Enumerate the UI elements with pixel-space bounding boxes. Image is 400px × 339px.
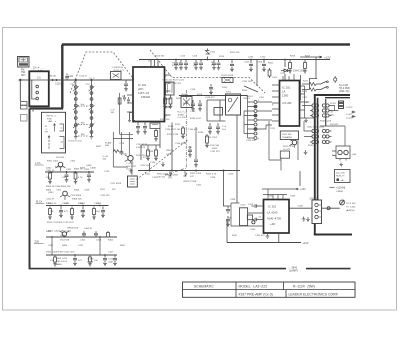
svg-text:VR306 50K: VR306 50K bbox=[67, 228, 79, 230]
dash-dot screen line vertical bbox=[165, 90, 186, 175]
svg-text:C304: C304 bbox=[70, 161, 76, 163]
transistor Q308 bbox=[252, 221, 255, 224]
junction dot d0 bbox=[51, 171, 53, 173]
svg-text:R327: R327 bbox=[232, 235, 238, 237]
svg-text:R201: R201 bbox=[268, 63, 274, 65]
heavy bus: +B vertical double line bbox=[314, 95, 316, 200]
svg-text:C152 223: C152 223 bbox=[210, 151, 220, 153]
switch row B resistor zigzag bbox=[302, 88, 320, 91]
svg-text:C324: C324 bbox=[210, 177, 216, 179]
svg-text:56B: 56B bbox=[193, 65, 197, 67]
svg-text:C121 R109: C121 R109 bbox=[110, 183, 122, 185]
node: antenna feed junction bbox=[19, 79, 21, 81]
svg-text:C310 R308: C310 R308 bbox=[70, 195, 82, 197]
legend tick small bbox=[61, 128, 64, 142]
svg-text:C315: C315 bbox=[96, 203, 102, 205]
schematic frame bottom edge left part bbox=[29, 268, 286, 270]
svg-text:R401: R401 bbox=[46, 231, 52, 233]
svg-text:C311: C311 bbox=[248, 204, 254, 206]
matrix feed wires left bbox=[302, 106, 310, 137]
svg-text:7BD: 7BD bbox=[81, 123, 86, 125]
svg-text:VR101: VR101 bbox=[166, 150, 173, 152]
wire IF det down to audio bus bbox=[171, 123, 173, 171]
resistor R204 on rail bbox=[288, 60, 292, 74]
svg-text:Q303: Q303 bbox=[48, 192, 54, 194]
wire branch x149.5 bbox=[149, 163, 151, 171]
capacitor C148 bbox=[194, 158, 198, 167]
svg-text:AT101: AT101 bbox=[50, 75, 57, 78]
svg-text:Q101: Q101 bbox=[122, 154, 128, 156]
svg-text:C333: C333 bbox=[290, 196, 296, 198]
svg-text:R323 4.7K: R323 4.7K bbox=[206, 174, 217, 176]
svg-text:R152: R152 bbox=[212, 148, 218, 150]
+12V supply wire under IC301 bbox=[227, 242, 301, 244]
FM antenna jack J1 bbox=[18, 57, 29, 68]
svg-text:4.5–6M: 4.5–6M bbox=[282, 101, 292, 105]
svg-text:TC–C: TC–C bbox=[89, 78, 95, 80]
crystal X101 below IC101 bbox=[150, 123, 160, 129]
svg-text:R402: R402 bbox=[108, 240, 114, 242]
svg-text:R224: R224 bbox=[302, 91, 308, 93]
svg-text:ANT: ANT bbox=[21, 74, 26, 77]
resistor R303 bbox=[74, 171, 78, 184]
cap C313 bbox=[59, 207, 63, 218]
transistor matrix row Q304 bbox=[310, 140, 332, 143]
resistor R139 below IC101 bbox=[146, 148, 150, 161]
svg-text:C134: C134 bbox=[148, 151, 154, 153]
tuning gang VC1 column bbox=[73, 80, 79, 136]
tuner terminal t2 bbox=[36, 91, 39, 94]
transistor matrix row Q212 bbox=[310, 109, 332, 112]
legend bracket 2 bbox=[60, 137, 65, 149]
svg-text:C+M: C+M bbox=[193, 63, 198, 65]
svg-text:NON–P×: NON–P× bbox=[336, 175, 346, 178]
svg-text:C407: C407 bbox=[108, 252, 114, 254]
svg-text:R135: R135 bbox=[168, 126, 174, 128]
title block col divider 2 bbox=[283, 282, 285, 290]
wire antenna to tuner bbox=[19, 79, 30, 81]
capacitor C145 bbox=[191, 100, 195, 111]
transistor Q303L bbox=[63, 191, 68, 196]
svg-text:C309: C309 bbox=[84, 190, 90, 192]
AM converter cluster: transistor Q101 bbox=[128, 156, 133, 161]
svg-text:IC 301: IC 301 bbox=[268, 205, 277, 209]
wire x196 branch bbox=[195, 127, 197, 158]
schematic frame left upper edge bbox=[61, 45, 63, 109]
svg-text:(A REW): (A REW) bbox=[346, 209, 355, 212]
resistor R137 mid ladder bbox=[181, 126, 185, 139]
ground CN303 bbox=[306, 217, 310, 222]
capacitor C104 at frame bbox=[65, 74, 69, 81]
heavy bus lower segment bbox=[314, 224, 316, 235]
heavy bus horizontal top bbox=[314, 94, 350, 96]
CN303 pin 3 bbox=[315, 215, 318, 218]
svg-text:C115 R109: C115 R109 bbox=[112, 67, 124, 69]
svg-text:TO E 300: TO E 300 bbox=[346, 203, 356, 205]
svg-text:10K: 10K bbox=[188, 147, 192, 149]
main RF wire y80 bbox=[49, 79, 133, 81]
resistor R402 bbox=[107, 231, 110, 237]
svg-text:R303 1K: R303 1K bbox=[74, 169, 83, 171]
junction dot d6 bbox=[99, 205, 101, 207]
ground cluster below IC101 bbox=[161, 162, 165, 167]
ground under IC301 bbox=[266, 233, 270, 238]
dashed AM shield diagonal bbox=[137, 140, 188, 180]
resistor R404 bbox=[53, 255, 57, 266]
tone rows link wires bbox=[52, 237, 100, 255]
capacitor C149 mid bbox=[188, 146, 192, 157]
svg-text:TC101 TC102: TC101 TC102 bbox=[68, 141, 82, 143]
wire down to IC301 input bbox=[224, 171, 232, 207]
diode D204 bbox=[281, 69, 291, 72]
svg-text:R304 1K C308 R306 10K: R304 1K C308 R306 10K bbox=[46, 186, 71, 188]
junction dot on RF wire a bbox=[52, 79, 54, 81]
svg-text:C404: C404 bbox=[96, 240, 102, 242]
svg-text:Q=C 750: Q=C 750 bbox=[336, 173, 346, 175]
svg-text:R321: R321 bbox=[145, 174, 151, 176]
junction dot audio b bbox=[171, 170, 173, 172]
svg-text:R+AM: R+AM bbox=[105, 142, 111, 145]
CN303 pin 2 bbox=[315, 209, 318, 212]
svg-text:D201: D201 bbox=[222, 87, 228, 89]
transistor Q401 bbox=[62, 232, 66, 236]
IC301 top pin stubs bbox=[263, 189, 287, 200]
detector transformer T201 bbox=[226, 94, 241, 115]
svg-text:1F AM: 1F AM bbox=[178, 113, 184, 116]
svg-text:R311 C313 R312 C314 470: R311 C313 R312 C314 470 bbox=[47, 222, 75, 224]
svg-text:+12V: +12V bbox=[303, 241, 309, 245]
svg-text:C116: C116 bbox=[192, 56, 198, 58]
svg-text:10K 471: 10K 471 bbox=[157, 177, 166, 179]
resistor R208 bbox=[268, 68, 271, 78]
svg-text:LA 4140: LA 4140 bbox=[267, 211, 278, 215]
schematic frame bottom edge right part bbox=[306, 268, 351, 270]
resistor R311 bbox=[48, 207, 52, 220]
wires left of IC301 bbox=[231, 203, 264, 226]
svg-text:R302 47K: R302 47K bbox=[55, 167, 65, 169]
meter drive wire loop bbox=[320, 126, 345, 146]
+12V feed arrow bbox=[300, 56, 322, 58]
svg-text:FM/AM: FM/AM bbox=[141, 95, 151, 99]
svg-text:R111: R111 bbox=[100, 189, 106, 191]
svg-text:R233: R233 bbox=[308, 145, 314, 147]
svg-text:CF101 471: CF101 471 bbox=[113, 70, 125, 72]
svg-text:R207: R207 bbox=[305, 56, 311, 58]
pot VR302 symbol bbox=[184, 171, 188, 177]
AM IF can legs bbox=[130, 113, 134, 121]
svg-text:R308 10K: R308 10K bbox=[72, 199, 82, 201]
svg-text:C411: C411 bbox=[48, 245, 54, 247]
svg-text:C136 R127 104: C136 R127 104 bbox=[165, 129, 181, 131]
schematic frame left lower edge bbox=[29, 109, 31, 269]
transistor Q302L bbox=[58, 162, 63, 167]
schematic frame top edge bbox=[62, 43, 350, 46]
AM osc coil box L103 bbox=[128, 176, 138, 187]
rail junction dot a bbox=[250, 59, 252, 61]
svg-text:CF201 455K: CF201 455K bbox=[221, 75, 234, 77]
wire rail to IC201 bbox=[257, 60, 285, 87]
svg-text:C301 10: C301 10 bbox=[46, 170, 55, 172]
Q401 leads bbox=[59, 231, 69, 237]
resistor R313 bbox=[92, 207, 96, 220]
supply rail wire y59.5 bbox=[139, 59, 330, 61]
svg-text:C301: C301 bbox=[196, 185, 202, 187]
svg-text:L202 560: L202 560 bbox=[210, 145, 220, 147]
svg-text:R407: R407 bbox=[120, 245, 126, 247]
svg-text:R401 C401 Q401 C403: R401 C401 Q401 C403 bbox=[48, 231, 72, 233]
resistor R132 bbox=[169, 95, 173, 109]
svg-text:→+12: →+12 bbox=[255, 217, 262, 219]
trim cap glyph a bbox=[352, 111, 356, 113]
svg-text:CN=C 205: CN=C 205 bbox=[293, 70, 305, 73]
transistor Q305 bbox=[338, 150, 342, 154]
switch row A resistor zigzag bbox=[302, 82, 320, 85]
svg-text:+FM·S1–1·→: +FM·S1–1·→ bbox=[46, 116, 59, 118]
IC101 pin tick marks bbox=[165, 75, 167, 117]
AF driver pair box bbox=[336, 146, 350, 159]
junction dot d10 bbox=[104, 254, 106, 256]
capacitor C111 bbox=[124, 80, 128, 91]
junction dot on RF wire d bbox=[90, 79, 92, 81]
svg-text:C211: C211 bbox=[270, 128, 276, 130]
junction dot on RF wire b bbox=[56, 79, 58, 81]
svg-text:IC202: IC202 bbox=[330, 103, 337, 105]
svg-text:C414: C414 bbox=[108, 259, 114, 261]
svg-text:C=103: C=103 bbox=[346, 118, 353, 120]
svg-text:C144 473: C144 473 bbox=[188, 129, 198, 131]
AGC row wire bbox=[45, 171, 94, 173]
resistor R131 bbox=[163, 95, 167, 109]
band switch legend box S1-1 bbox=[42, 112, 66, 153]
svg-text:Q302 Q303 Q304: Q302 Q303 Q304 bbox=[307, 127, 325, 129]
headphone jack J301 bbox=[340, 200, 345, 205]
svg-text:BASS: BASS bbox=[56, 263, 62, 266]
svg-text:R125 104: R125 104 bbox=[160, 119, 170, 121]
capacitor cluster A below rail bbox=[174, 60, 188, 70]
svg-text:C128 473: C128 473 bbox=[205, 97, 215, 99]
svg-text:R129 C138: R129 C138 bbox=[167, 134, 179, 136]
+12V(M) label bbox=[330, 186, 335, 188]
svg-text:C328: C328 bbox=[230, 199, 236, 201]
ground below Q201 bbox=[304, 150, 308, 155]
svg-text:FM: FM bbox=[21, 70, 24, 72]
IC101 left pin stubs bbox=[127, 80, 133, 112]
jack arrow bbox=[340, 200, 344, 205]
link wire to IC201 bbox=[257, 102, 272, 129]
AM antenna terminal block bbox=[21, 102, 28, 106]
svg-text:C1-1: C1-1 bbox=[70, 84, 76, 86]
IF amp IC101 bbox=[133, 67, 165, 122]
transistor matrix row Q211 bbox=[310, 104, 332, 107]
svg-text:R+12 C+3: R+12 C+3 bbox=[178, 112, 188, 114]
capacitor C152 below loop bbox=[216, 123, 220, 134]
switch row B lever S1-2b bbox=[320, 87, 327, 90]
discriminator T106 bbox=[166, 82, 175, 95]
AM converter loop wires bbox=[113, 132, 133, 167]
svg-text:C310: C310 bbox=[240, 205, 246, 207]
legend switch arrow 1 bbox=[54, 124, 56, 132]
wire IF out to right bbox=[179, 95, 248, 97]
svg-text:R136 C147: R136 C147 bbox=[190, 118, 202, 120]
wire antenna ground drop bbox=[19, 80, 21, 101]
+12V label left of CN303 bbox=[295, 188, 299, 190]
svg-text:Z00: Z00 bbox=[35, 240, 40, 244]
cap C315 bbox=[101, 207, 105, 218]
svg-text:C306: C306 bbox=[298, 206, 304, 208]
resistor R205 on rail bbox=[303, 60, 307, 74]
schematic frame step edge bbox=[30, 107, 64, 109]
transistor matrix row Q302 bbox=[310, 129, 332, 132]
resistor pack box R215 bbox=[280, 151, 289, 158]
svg-text:C=222: C=222 bbox=[346, 107, 353, 109]
svg-text:4.7K: 4.7K bbox=[78, 177, 83, 179]
ganged link dashes between VC sections bbox=[78, 106, 89, 136]
tone row1 wire bbox=[46, 236, 117, 238]
junction dot d4 bbox=[60, 205, 62, 207]
IC201 right riser wire bbox=[305, 86, 309, 118]
svg-text:10KB: 10KB bbox=[166, 154, 172, 156]
ceramic filter CF101 bbox=[111, 72, 122, 80]
svg-text:C114: C114 bbox=[180, 56, 186, 58]
title block row divider bbox=[183, 289, 356, 291]
output connector CN303 bbox=[312, 200, 322, 224]
wire Q101 to osc coil bbox=[131, 161, 133, 175]
tuner terminal t1 bbox=[36, 85, 39, 88]
wires below IC201 to audio bbox=[269, 121, 298, 171]
rail junction dot b bbox=[263, 59, 265, 61]
svg-text:+12V: +12V bbox=[300, 188, 306, 191]
cap C410 bbox=[113, 255, 117, 266]
switch row B contact bbox=[327, 86, 329, 88]
svg-text:C303: C303 bbox=[66, 169, 72, 171]
ground left of matrix bbox=[304, 118, 308, 123]
resistor R138 ladder bbox=[205, 134, 209, 148]
wire +12V feed to IC301 bbox=[262, 171, 300, 189]
trimmer symbol above switch bbox=[334, 78, 337, 81]
svg-text:75Ω: 75Ω bbox=[21, 72, 26, 74]
cap C311 bbox=[252, 204, 259, 208]
svg-text:R–1124 (9W): R–1124 (9W) bbox=[293, 285, 315, 289]
svg-text:C123 20P: C123 20P bbox=[100, 195, 110, 197]
svg-text:R320 C321: R320 C321 bbox=[157, 174, 169, 176]
legend switch arrow 2 bbox=[48, 136, 50, 149]
CN303 pin 1 bbox=[315, 203, 318, 206]
Q201 leads bbox=[290, 140, 295, 148]
junction dot d5 bbox=[82, 205, 84, 207]
junction dot d2 bbox=[75, 171, 77, 173]
junction dot audio wire bbox=[223, 170, 225, 172]
svg-text:R211 C215: R211 C215 bbox=[283, 146, 295, 148]
svg-text:R203: R203 bbox=[242, 90, 248, 92]
resistor R302 bbox=[48, 171, 52, 184]
svg-text:C151 C152: C151 C152 bbox=[206, 137, 218, 139]
svg-text:330 102: 330 102 bbox=[172, 65, 180, 67]
mute loop wire bbox=[207, 100, 226, 121]
svg-text:R114 330: R114 330 bbox=[155, 56, 165, 58]
junction dot d9 bbox=[74, 254, 76, 256]
svg-text:L103: L103 bbox=[126, 169, 132, 171]
svg-text:C307: C307 bbox=[56, 190, 62, 192]
IC201 right pin stubs bbox=[300, 86, 305, 118]
cap C408 bbox=[73, 255, 77, 266]
svg-text:L203: L203 bbox=[272, 77, 278, 79]
svg-text:C246: C246 bbox=[248, 57, 254, 59]
capacitor C121 with ground bbox=[230, 60, 234, 72]
title block outer bbox=[183, 282, 356, 297]
svg-text:2-1: 2-1 bbox=[37, 76, 41, 80]
pot VR301 symbol bbox=[169, 171, 173, 177]
coupling cap pack C310 bbox=[240, 208, 248, 226]
interstage connector CN201 pin column bbox=[254, 101, 257, 140]
capacitor cluster B below rail bbox=[194, 60, 203, 70]
dashed IF shield boundary bbox=[150, 50, 265, 93]
gang ground VC2 bbox=[90, 134, 94, 139]
svg-text:VOL: VOL bbox=[168, 178, 173, 180]
svg-text:C207: C207 bbox=[259, 97, 265, 99]
svg-text:R139: R139 bbox=[198, 132, 204, 134]
svg-text:SCHEMATIC: SCHEMATIC bbox=[194, 285, 214, 289]
svg-text:R403 C405 R405 C406 C407: R403 C405 R405 C406 C407 bbox=[46, 252, 75, 254]
svg-text:R221: R221 bbox=[303, 81, 309, 83]
wire matrix to DIP bbox=[329, 106, 339, 111]
rail junction dot c bbox=[284, 59, 286, 61]
cap C404 bbox=[94, 231, 98, 237]
DIP block IC202 bbox=[339, 101, 344, 109]
svg-text:L.Ch: L.Ch bbox=[35, 161, 41, 165]
ground AM cluster bbox=[129, 169, 133, 173]
tuner front-end box A1 bbox=[29, 71, 49, 106]
L103 inner ticks bbox=[130, 179, 135, 184]
svg-text:(LAMP): (LAMP) bbox=[289, 269, 298, 273]
svg-text:C135: C135 bbox=[150, 162, 156, 164]
junction dot d7 bbox=[51, 236, 53, 238]
junction dot on RF wire c bbox=[75, 79, 77, 81]
resistor R121 below IC101 bbox=[154, 129, 158, 142]
capacitor C130 below IC101 bbox=[136, 122, 140, 135]
capacitor C127 bbox=[209, 84, 213, 95]
svg-text:S1-2 AM: S1-2 AM bbox=[339, 84, 348, 87]
svg-text:2SC945: 2SC945 bbox=[56, 157, 65, 159]
rail junction dot d bbox=[207, 59, 209, 61]
svg-text:R137: R137 bbox=[175, 124, 181, 126]
capacitor C131 below IC101 bbox=[143, 122, 147, 135]
svg-text:2.2K: 2.2K bbox=[80, 211, 85, 213]
+12V text bbox=[296, 242, 299, 244]
svg-text:R304: R304 bbox=[46, 190, 52, 192]
svg-text:473 2.2K 102: 473 2.2K 102 bbox=[168, 83, 182, 85]
zener diode D102 bbox=[206, 49, 210, 60]
svg-text:+4D: +4D bbox=[270, 222, 275, 226]
svg-text:(4SR–1Q): (4SR–1Q) bbox=[339, 91, 350, 93]
capacitor C309 left of IC301 bbox=[226, 216, 230, 227]
svg-text:C146 R138: C146 R138 bbox=[175, 143, 187, 145]
CN201 pin feed wires bbox=[244, 96, 254, 139]
ground right of IC301 bbox=[302, 217, 306, 222]
junction dot d3 bbox=[88, 171, 90, 173]
svg-text:1000P: 1000P bbox=[87, 262, 94, 264]
resistor R140 below IC101 bbox=[154, 148, 158, 161]
switch row A lever S1-2a bbox=[320, 81, 327, 84]
transistor matrix row Q213 bbox=[310, 114, 332, 117]
driver pair leads bbox=[332, 151, 346, 161]
svg-text:R206: R206 bbox=[290, 56, 296, 58]
Q302L leads bbox=[56, 166, 66, 171]
transistor Q201 bbox=[292, 140, 297, 145]
svg-text:C1-2: C1-2 bbox=[85, 84, 91, 86]
svg-text:CERAMIC: CERAMIC bbox=[282, 136, 293, 139]
svg-text:CF102: CF102 bbox=[181, 94, 188, 96]
riser to +12V wire bbox=[226, 220, 228, 243]
